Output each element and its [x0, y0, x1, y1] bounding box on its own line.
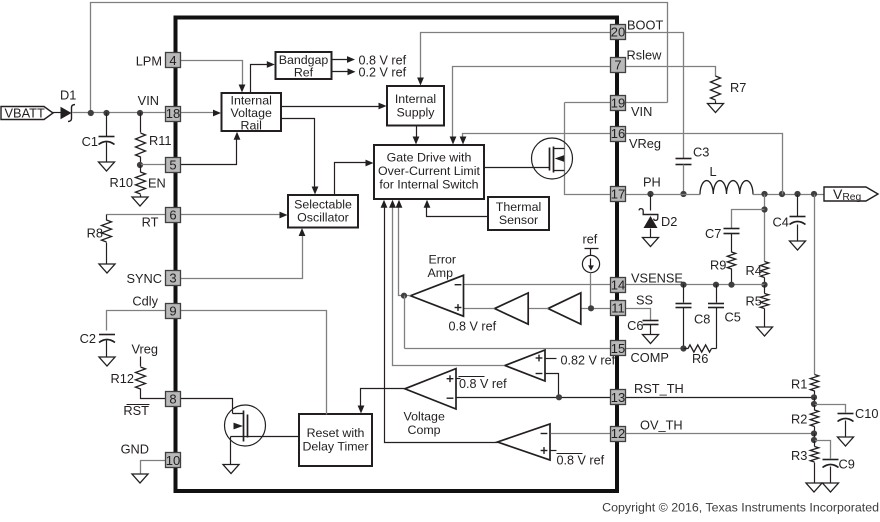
svg-text:Error: Error	[429, 253, 457, 267]
node junction R11 branch	[137, 110, 143, 116]
buffer amplifier stage 2	[548, 293, 581, 324]
pin 9 Cdly	[166, 304, 181, 319]
svg-text:Sensor: Sensor	[499, 213, 538, 227]
svg-text:R4: R4	[746, 263, 762, 278]
resistor R12	[140, 357, 142, 367]
svg-text:R3: R3	[791, 448, 807, 463]
svg-text:for Internal Switch: for Internal Switch	[379, 178, 478, 192]
node junction R4 branch	[761, 191, 767, 197]
block Bandgap Ref	[276, 52, 332, 79]
svg-text:VIN: VIN	[631, 104, 652, 119]
current source ref	[585, 248, 599, 250]
svg-text:RT: RT	[142, 215, 159, 230]
node junction R2/R3/OV_TH	[811, 430, 817, 436]
wire Internal Voltage Rail to Internal Supply	[281, 106, 381, 108]
pin 6 RT	[166, 208, 181, 223]
wire pin 20 BOOT to C3	[626, 33, 684, 159]
svg-text:Reset with: Reset with	[307, 426, 365, 440]
svg-text:SYNC: SYNC	[126, 271, 162, 286]
ground below C1	[99, 162, 115, 171]
wire VBATT to D1 anode	[53, 112, 61, 114]
svg-text:RST_TH: RST_TH	[634, 381, 684, 396]
node VBATT flag	[1, 107, 53, 120]
node junction R4/R5/VSENSE	[761, 282, 767, 288]
wire Thermal Sensor to Gate Drive	[427, 207, 489, 217]
svg-text:R11: R11	[149, 133, 172, 148]
buffer amplifier stage 1	[495, 293, 529, 324]
comparator Voltage Comp	[405, 369, 456, 409]
wire Error Amp output down to COMP line	[404, 296, 406, 349]
svg-text:5: 5	[169, 158, 176, 173]
transistor Q1 internal switch	[532, 138, 573, 179]
wire output node down to R1	[814, 195, 816, 375]
wire output node down to R4	[764, 195, 766, 262]
block Selectable Oscillator	[288, 195, 358, 228]
svg-text:LPM: LPM	[136, 53, 162, 68]
svg-text:EN: EN	[148, 176, 166, 191]
wire pin 4 LPM to Internal Voltage Rail top	[181, 61, 243, 85]
block Reset with Delay Timer	[299, 414, 372, 466]
node VReg output flag	[824, 187, 878, 201]
wire pin 18 VIN to Internal Voltage Rail	[181, 112, 215, 114]
svg-text:Delay Timer: Delay Timer	[302, 440, 368, 454]
ground below R5	[757, 327, 773, 336]
svg-text:C2: C2	[80, 331, 96, 346]
capacitor C3	[676, 158, 692, 160]
svg-text:R8: R8	[87, 226, 103, 241]
wire pin 5 EN to Internal Voltage Rail bottom	[181, 139, 237, 165]
svg-text:C4: C4	[773, 215, 789, 230]
diode D1	[61, 107, 72, 119]
wire Gate Drive output to Q1 gate	[485, 167, 550, 169]
wire pin 13 RST_TH internal to Voltage Comp	[457, 397, 611, 399]
wire C10 branch	[815, 405, 846, 413]
svg-text:3: 3	[169, 271, 176, 286]
svg-text:4: 4	[169, 53, 176, 68]
ground below R8	[99, 264, 115, 273]
comparator 0.82V reset threshold	[505, 350, 545, 381]
svg-text:VBATT: VBATT	[5, 106, 45, 121]
svg-text:19: 19	[611, 96, 625, 111]
resistor R7	[711, 76, 721, 100]
pin 20 BOOT	[611, 25, 626, 40]
wire pin 19 VIN internal	[565, 102, 611, 104]
wire pin 10 GND to ground	[141, 461, 166, 475]
node junction C10 branch	[811, 401, 817, 407]
svg-text:9: 9	[169, 304, 176, 319]
wire Internal Voltage Rail to Selectable Oscillator	[281, 119, 315, 189]
wire pin 14 VSENSE external	[626, 284, 765, 286]
svg-text:16: 16	[611, 126, 625, 141]
resistor R4	[760, 262, 768, 278]
wire pin 6 RT to R8	[107, 214, 166, 216]
svg-text:ref: ref	[583, 233, 598, 247]
wire pin 7 Rslew to R7	[626, 67, 716, 77]
node junction Error Amp output / COMP	[401, 293, 407, 299]
node junction VReg pin16 branch	[779, 191, 785, 197]
wire pin 19 VIN external to top loop	[626, 102, 668, 104]
node junction R11/R10/pin5	[137, 162, 143, 168]
wire Voltage Comp output to Reset with Delay Timer	[361, 389, 405, 407]
pin 12 OV_TH	[611, 427, 626, 442]
svg-text:Oscillator: Oscillator	[297, 211, 349, 225]
svg-text:R12: R12	[111, 371, 134, 386]
comparator OV threshold	[498, 424, 551, 460]
svg-text:PH: PH	[643, 175, 661, 190]
ground below C6	[643, 335, 659, 344]
resistor R10	[140, 165, 142, 173]
svg-text:C10: C10	[855, 406, 878, 421]
node junction C9 branch	[811, 437, 817, 443]
capacitor C6	[643, 320, 659, 322]
wire ref source to SS line	[590, 273, 592, 309]
wire D1 cathode to pin 18 VIN	[73, 112, 166, 114]
capacitor C1	[106, 113, 108, 137]
wire 0.82V comparator plus input stub	[545, 358, 557, 360]
resistor R1	[810, 375, 818, 392]
op-amp Error Amp	[411, 275, 464, 316]
wire 0.82V comparator output to Gate Drive	[393, 205, 505, 366]
capacitor C2	[99, 334, 115, 336]
ground below R7	[708, 104, 724, 113]
svg-text:R10: R10	[110, 175, 133, 190]
wire pin 12 OV_TH internal to OV comparator	[551, 433, 611, 435]
ground below Q2	[223, 465, 239, 474]
wire pin 15 COMP external	[626, 348, 684, 350]
wire Internal Supply to Gate Drive	[416, 126, 418, 139]
svg-text:Comp: Comp	[408, 423, 441, 437]
svg-text:Amp: Amp	[428, 266, 454, 280]
wire buffer1 to Error Amp non-inverting input	[464, 308, 495, 310]
ground below C10	[838, 437, 854, 446]
pin 7 Rslew	[611, 58, 626, 73]
capacitor C9	[823, 459, 839, 461]
svg-text:18: 18	[166, 106, 180, 121]
wire C7 branch	[732, 210, 765, 229]
transistor Q2 RST open drain	[225, 405, 266, 446]
wire pin 20 BOOT internal to Internal Supply	[421, 33, 611, 79]
wire pin 9 Cdly internal to Reset with Delay Timer	[181, 311, 327, 415]
node junction C4 branch	[794, 191, 800, 197]
wire 0.82V comparator minus input to RST_TH	[545, 374, 559, 398]
resistor R6	[684, 348, 689, 350]
wire pin 11 SS internal to buffer	[581, 308, 611, 310]
ground below R10	[132, 197, 148, 206]
node junction RST_TH / 0.82V comparator	[556, 394, 562, 400]
wire pin 12 OV_TH external	[626, 433, 815, 435]
node junction on VIN line at top-loop branch	[88, 110, 94, 116]
block Internal Supply	[387, 86, 444, 126]
wire pin 7 Rslew internal to Gate Drive	[453, 67, 611, 139]
node junction ref/SS	[588, 305, 594, 311]
pin 11 SS	[611, 301, 626, 316]
svg-text:Thermal: Thermal	[496, 200, 541, 214]
block Internal Voltage Rail	[222, 93, 282, 131]
wire pin 11 SS to C6	[626, 309, 651, 321]
svg-text:17: 17	[611, 187, 625, 202]
svg-text:Internal: Internal	[395, 92, 436, 106]
svg-text:Over-Current Limit: Over-Current Limit	[378, 164, 480, 178]
svg-text:C1: C1	[82, 134, 98, 149]
wire VBATT top loop to VIN pin 19	[91, 3, 668, 113]
svg-text:R5: R5	[746, 294, 762, 309]
wire Bandgap Ref output 0.2V	[332, 71, 349, 73]
svg-text:Voltage: Voltage	[404, 410, 445, 424]
wire pin 17 PH to inductor	[626, 194, 701, 196]
ground below C2	[99, 357, 115, 366]
resistor R9	[727, 252, 735, 269]
svg-text:0.82 V ref: 0.82 V ref	[561, 353, 616, 367]
ground below C4	[790, 241, 806, 250]
node junction feedback divider branch	[811, 191, 817, 197]
svg-text:Gate Drive with: Gate Drive with	[387, 151, 472, 165]
svg-text:VSENSE: VSENSE	[631, 271, 683, 286]
pin 19 VIN	[611, 96, 626, 111]
svg-text:BOOT: BOOT	[627, 18, 663, 33]
svg-text:R1: R1	[791, 377, 807, 392]
svg-text:GND: GND	[121, 442, 149, 457]
wire Error Amp output node	[405, 295, 411, 297]
IC boundary	[176, 18, 618, 492]
svg-text:Selectable: Selectable	[294, 198, 352, 212]
wire pin 15 COMP internal	[405, 348, 611, 350]
wire pin 16 VReg external to output node	[626, 134, 783, 195]
svg-text:0.8 V ref: 0.8 V ref	[557, 453, 605, 467]
svg-text:20: 20	[611, 25, 625, 40]
wire pin 3 SYNC to Selectable Oscillator	[181, 235, 303, 279]
svg-text:R6: R6	[692, 351, 708, 366]
block Thermal Sensor	[488, 197, 549, 230]
pin 18 VIN	[166, 107, 181, 122]
svg-text:0.8 V ref: 0.8 V ref	[449, 320, 497, 334]
svg-text:R9: R9	[710, 258, 726, 273]
wire OV comparator output to Gate Drive	[385, 205, 498, 443]
svg-text:Copyright © 2016, Texas Instru: Copyright © 2016, Texas Instruments Inco…	[602, 501, 879, 515]
resistor R11	[140, 113, 142, 133]
svg-text:Rslew: Rslew	[627, 48, 663, 63]
svg-text:8: 8	[169, 392, 176, 407]
pin 4 LPM	[166, 53, 181, 68]
svg-text:11: 11	[611, 301, 625, 316]
svg-text:6: 6	[169, 208, 176, 223]
svg-text:Rail: Rail	[241, 119, 262, 133]
node junction C3 to PH line	[680, 191, 686, 197]
wire Voltage Comp plus input stub with 0.8 V ref overline	[457, 378, 461, 380]
pin 17 PH	[611, 187, 626, 202]
svg-text:C9: C9	[839, 457, 855, 472]
svg-text:OV_TH: OV_TH	[640, 418, 683, 433]
node junction C1 branch	[103, 110, 109, 116]
pin 8 RST	[166, 392, 181, 407]
pin 15 COMP	[611, 341, 626, 356]
wire VIN to PH through switch node	[565, 103, 611, 195]
wire pin 8 RST to Q2 drain	[181, 399, 233, 414]
wire OV comparator plus input stub with 0.8 V ref overline	[551, 450, 557, 452]
wire Selectable Oscillator to Gate Drive	[335, 163, 367, 195]
capacitor C5	[716, 285, 718, 303]
pin 13 RST_TH	[611, 390, 626, 405]
svg-text:VReg: VReg	[629, 136, 661, 151]
svg-text:R7: R7	[730, 80, 746, 95]
diode D2	[650, 195, 652, 211]
svg-text:C5: C5	[725, 310, 741, 325]
ground below R3	[806, 483, 822, 492]
wire pin 16 VReg internal to Gate Drive	[463, 134, 611, 139]
svg-text:Cdly: Cdly	[132, 294, 158, 309]
svg-text:SS: SS	[636, 293, 653, 308]
resistor R5	[764, 285, 766, 294]
svg-text:D2: D2	[661, 214, 677, 229]
svg-text:RST: RST	[123, 403, 149, 418]
node junction C5 on VSENSE	[713, 282, 719, 288]
svg-text:0.2 V ref: 0.2 V ref	[359, 66, 407, 80]
wire C9 branch	[815, 441, 831, 459]
svg-text:10: 10	[166, 453, 180, 468]
node junction C8 on VSENSE	[680, 282, 686, 288]
svg-text:12: 12	[611, 426, 625, 441]
svg-text:D1: D1	[60, 88, 76, 103]
pin 5 EN	[166, 158, 181, 173]
svg-text:13: 13	[611, 390, 625, 405]
wire pin 13 RST_TH external	[626, 397, 815, 399]
wire Internal Voltage Rail to Bandgap Ref	[251, 65, 269, 93]
svg-text:Supply: Supply	[397, 106, 436, 120]
pin 3 SYNC	[166, 271, 181, 286]
svg-text:C8: C8	[694, 312, 710, 327]
ground below C9	[823, 483, 839, 492]
ground below D2	[643, 238, 659, 247]
capacitor C7	[724, 228, 740, 230]
inductor L	[700, 181, 753, 194]
pin 16 VReg	[611, 127, 626, 142]
svg-text:15: 15	[611, 341, 625, 356]
capacitor C8	[683, 285, 685, 303]
node junction C7 branch	[761, 206, 767, 212]
svg-text:VIN: VIN	[138, 93, 159, 108]
resistor R8	[106, 215, 108, 221]
capacitor C10	[838, 413, 854, 415]
block Gate Drive with Over-Current Limit for Internal Switch	[374, 145, 484, 199]
ground at GND pin	[132, 474, 148, 483]
svg-text:Ref: Ref	[294, 65, 314, 79]
resistor R2	[814, 405, 816, 411]
svg-text:L: L	[710, 164, 717, 179]
svg-text:0.8 V ref: 0.8 V ref	[459, 377, 507, 391]
capacitor C4	[797, 195, 799, 217]
wire EN node to pin 5	[141, 164, 166, 166]
svg-text:R2: R2	[791, 412, 807, 427]
resistor R3	[814, 441, 816, 447]
wire Q2 source to ground and gate to Reset block	[231, 436, 299, 438]
svg-text:14: 14	[611, 278, 625, 293]
svg-text:C6: C6	[627, 318, 643, 333]
wire buffer2 to buffer1	[529, 308, 549, 310]
node junction D2 branch	[647, 191, 653, 197]
svg-text:C3: C3	[693, 145, 709, 160]
svg-text:C7: C7	[705, 226, 721, 241]
wire pin 9 Cdly to C2	[107, 311, 166, 331]
pin 10 GND	[166, 453, 181, 468]
svg-text:Vreg: Vreg	[131, 342, 158, 357]
wire inductor to VReg output	[753, 194, 825, 196]
wire pin 14 VSENSE internal to Error Amp inverting input	[464, 284, 611, 286]
node junction R1/R2/RST_TH	[811, 394, 817, 400]
svg-text:COMP: COMP	[631, 350, 669, 365]
node junction C8/R6 on COMP	[680, 345, 686, 351]
wire pin 6 RT to Selectable Oscillator	[181, 214, 281, 216]
pin 14 VSENSE	[611, 278, 626, 293]
svg-text:7: 7	[614, 58, 621, 73]
node junction R9 on VSENSE	[728, 282, 734, 288]
wire Bandgap Ref output 0.8V	[332, 59, 349, 61]
